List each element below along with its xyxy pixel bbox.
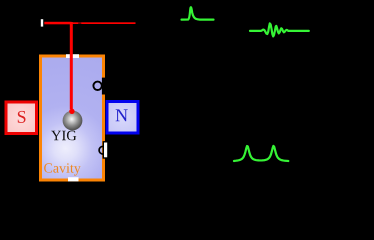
cavity bottom hole xyxy=(68,177,79,181)
cavity top hole xyxy=(66,54,79,58)
antenna tip dot xyxy=(69,109,74,114)
N label xyxy=(116,109,128,121)
feedline thick segment xyxy=(44,22,71,25)
Cavity label xyxy=(44,163,81,175)
waveform beat signal xyxy=(250,23,309,36)
YIG label xyxy=(51,131,76,141)
waveform double peak spectrum xyxy=(234,146,288,161)
port 2 connector xyxy=(103,142,108,158)
port 1 loop xyxy=(93,82,101,90)
source tick xyxy=(41,19,43,26)
antenna wire xyxy=(70,22,73,109)
cavity body xyxy=(41,56,104,180)
feedline arrow mark xyxy=(78,22,81,24)
YIG sphere xyxy=(63,111,83,131)
magnet S xyxy=(6,102,37,134)
feedline thin segment xyxy=(72,22,136,24)
waveform input pulse xyxy=(182,7,214,19)
port 2 arc xyxy=(99,146,103,154)
S label xyxy=(18,111,26,123)
magnet N xyxy=(107,102,138,134)
port 1 wall bar xyxy=(102,78,105,95)
